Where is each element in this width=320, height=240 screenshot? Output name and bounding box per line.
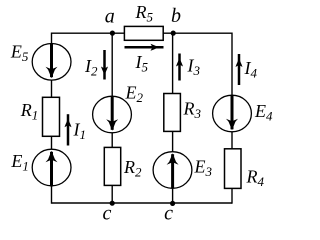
- arrow E4 down: [226, 95, 238, 130]
- current arrow I2 down: [101, 50, 108, 80]
- wire branch4 bottom: [231, 188, 233, 203]
- wire branch2 mid: [111, 133, 113, 148]
- wire branch4 top: [231, 33, 233, 96]
- source E4: [213, 95, 252, 132]
- source E5: [32, 44, 71, 81]
- resistor R4: [225, 149, 242, 189]
- source E3: [153, 152, 192, 189]
- current arrow I1 up: [65, 114, 72, 145]
- wire branch2 bottom: [111, 185, 113, 203]
- svg-text:c: c: [103, 203, 112, 225]
- wire top right segment b: [163, 32, 232, 34]
- svg-text:a: a: [105, 5, 115, 27]
- arrow E5 down: [46, 44, 58, 79]
- wire top left segment a: [52, 32, 125, 34]
- current arrow I3 up: [176, 54, 183, 81]
- current arrow I4 up: [236, 54, 243, 85]
- wire branch3 mid: [172, 131, 174, 152]
- wire branch1 mid2: [51, 136, 53, 149]
- wire branch1 bottom: [51, 186, 53, 204]
- current arrow I5 right: [125, 44, 164, 51]
- node c left junction dot: [110, 201, 115, 206]
- node a junction dot: [110, 30, 115, 35]
- node c right junction dot: [170, 201, 175, 206]
- wire branch3 top: [172, 33, 174, 93]
- resistor R1: [43, 97, 60, 136]
- svg-text:b: b: [171, 5, 181, 27]
- arrow E2 down: [106, 96, 118, 131]
- wire branch1 mid1: [51, 80, 53, 97]
- svg-text:c: c: [164, 203, 173, 225]
- wire branch3 bottom: [172, 189, 174, 204]
- resistor R2: [104, 147, 120, 185]
- wire branch2 top: [111, 33, 113, 96]
- resistor R5: [124, 26, 163, 40]
- resistor R3: [164, 94, 181, 132]
- arrow E3 up: [167, 153, 179, 188]
- arrow E1 up: [46, 151, 58, 187]
- source E1: [32, 149, 71, 186]
- wire branch1 top: [51, 33, 53, 45]
- wire branch4 mid: [231, 132, 233, 149]
- source E2: [93, 96, 132, 133]
- wire bottom: [52, 202, 233, 204]
- node b junction dot: [171, 30, 176, 35]
